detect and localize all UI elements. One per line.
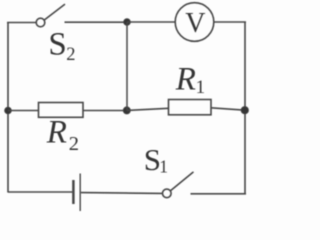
battery: long plate (positive) xyxy=(79,174,81,212)
wire: vertical from node A down to node D xyxy=(126,22,128,110)
wire: switch S2 to node A xyxy=(65,21,128,23)
switch S1 blade xyxy=(171,172,193,190)
wire: left side (top-left corner down to bottom-left corner) xyxy=(7,23,9,193)
label S1 xyxy=(144,142,168,177)
svg-text:R: R xyxy=(46,115,67,151)
svg-text:1: 1 xyxy=(159,156,168,176)
wire: top-left corner to switch S2 pivot xyxy=(7,22,36,24)
node C: junction dot middle wire at left side xyxy=(5,107,12,114)
voltmeter label V xyxy=(185,8,205,39)
wire: voltmeter to top-right corner xyxy=(214,21,246,23)
wire: switch S1 to bottom-right corner xyxy=(191,193,247,195)
node A: junction dot on top wire xyxy=(124,19,131,26)
wire: right side (top-right corner down to bottom-right corner) xyxy=(244,22,246,195)
resistor R2 box xyxy=(39,103,84,118)
resistor R1 box xyxy=(169,100,212,115)
wire: bottom-left corner to battery xyxy=(8,191,72,193)
svg-text:2: 2 xyxy=(69,133,79,155)
wire: node D to resistor R1 xyxy=(127,108,169,110)
svg-text:V: V xyxy=(185,8,205,39)
svg-text:S: S xyxy=(48,26,66,62)
battery: short plate (negative) xyxy=(72,180,75,204)
wire: battery to switch S1 pivot xyxy=(81,192,163,195)
wire: node A to voltmeter xyxy=(127,21,176,23)
label R1 xyxy=(175,62,205,98)
svg-text:2: 2 xyxy=(66,45,75,65)
wire: resistor R1 to node B xyxy=(211,108,245,110)
switch S2 pivot circle xyxy=(36,18,45,27)
switch S2 blade xyxy=(44,5,64,21)
wire: resistor R2 to node D xyxy=(83,110,127,112)
wire: left side to resistor R2 xyxy=(8,110,39,112)
label R2 xyxy=(46,115,79,155)
node B: junction dot on right wire xyxy=(241,107,248,114)
voltmeter V: circle body xyxy=(175,3,214,42)
switch S1 pivot circle xyxy=(163,189,172,198)
svg-text:R: R xyxy=(175,62,196,98)
node D: junction dot at middle of middle wire xyxy=(123,107,130,114)
label S2 xyxy=(48,26,75,65)
svg-text:1: 1 xyxy=(196,77,206,98)
